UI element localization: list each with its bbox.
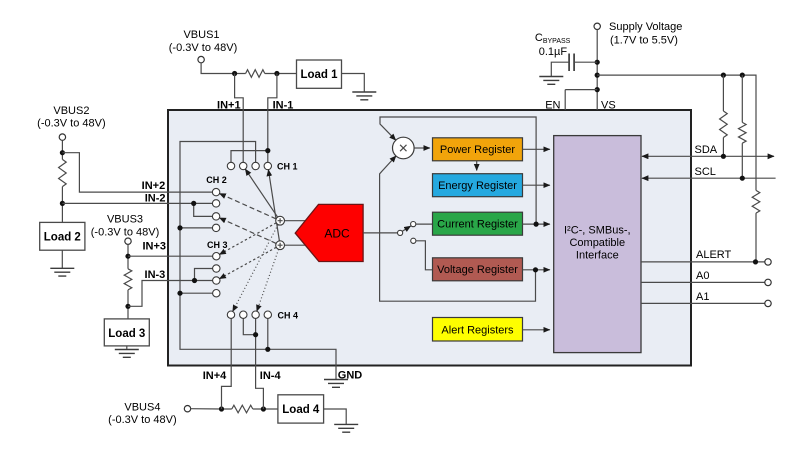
node CH1 contact 2 bbox=[240, 162, 247, 169]
junction pull-up R2 bbox=[740, 73, 745, 78]
junction IN-2 tap bbox=[60, 201, 65, 206]
junction CH3 link bbox=[192, 278, 197, 283]
svg-text:0.1µF: 0.1µF bbox=[539, 46, 568, 58]
svg-text:IN-2: IN-2 bbox=[145, 193, 166, 205]
svg-text:Compatible: Compatible bbox=[569, 237, 625, 249]
wire switch to Current Register bbox=[416, 223, 433, 225]
IC block body U1 bbox=[168, 110, 691, 366]
svg-text:A1: A1 bbox=[696, 291, 709, 303]
node CH3 contact 1 bbox=[213, 253, 220, 260]
wire A0 bbox=[641, 281, 765, 283]
Load 1 box bbox=[297, 60, 342, 88]
svg-text:VS: VS bbox=[601, 100, 616, 112]
junction IN+2 tap bbox=[60, 150, 65, 155]
svg-text:(1.7V to 5.5V): (1.7V to 5.5V) bbox=[610, 35, 678, 47]
resistor shunt RS1 bbox=[246, 70, 265, 78]
wire capacitor to ground bbox=[551, 62, 569, 76]
terminal VBUS2 bbox=[59, 134, 65, 140]
junction IN+4 tap bbox=[219, 406, 224, 411]
wire mux select CH3 positive (dotted) bbox=[220, 223, 277, 255]
wire A1 bbox=[641, 302, 765, 304]
Alert Registers bbox=[433, 318, 523, 342]
wire RS2 to Load 2 bbox=[61, 187, 63, 223]
svg-text:(-0.3V to 48V): (-0.3V to 48V) bbox=[169, 42, 237, 54]
wire Current Register to interface bbox=[523, 223, 550, 225]
Power Register bbox=[433, 138, 523, 161]
wire summing junction top to ADC bbox=[285, 220, 306, 222]
svg-text:VBUS3: VBUS3 bbox=[107, 214, 143, 226]
svg-text:VBUS2: VBUS2 bbox=[53, 105, 89, 117]
wire mux select CH4 positive (fine dotted) bbox=[233, 225, 278, 312]
node switch throw current bbox=[411, 222, 416, 227]
node CH4 contact 1 bbox=[227, 311, 234, 318]
wire Load 1 to ground bbox=[342, 74, 365, 93]
wire summing junction bottom to ADC bbox=[285, 244, 306, 246]
wire mux select CH2 negative (dashed) bbox=[220, 218, 277, 244]
wire internal bus to CH1 contact 3 bbox=[180, 142, 336, 380]
I2C SMBus interface block U3 bbox=[554, 136, 641, 353]
junction IN-4 tap bbox=[261, 406, 266, 411]
wire pin IN-1 bbox=[268, 74, 277, 163]
wire CH4 link contact 2 to IN-4 bbox=[243, 318, 255, 334]
node switch pole bbox=[398, 230, 403, 235]
ground Load 1 bbox=[352, 92, 376, 100]
ground CBYPASS bbox=[539, 77, 563, 85]
junction IN-3 tap bbox=[125, 304, 130, 309]
svg-text:GND: GND bbox=[338, 370, 363, 382]
resistor shunt RS2 bbox=[59, 159, 67, 186]
junction IN+1 tap bbox=[232, 71, 237, 76]
wire pin IN+4 bbox=[222, 318, 232, 409]
resistor shunt RS4 bbox=[232, 405, 253, 413]
junction EN tap bbox=[595, 87, 600, 92]
node CH2 contact 3 bbox=[212, 213, 219, 220]
Load 2 box bbox=[40, 222, 85, 250]
svg-text:VBUS1: VBUS1 bbox=[183, 29, 219, 41]
svg-text:Interface: Interface bbox=[576, 250, 619, 262]
node CH1 contact 1 bbox=[227, 162, 234, 169]
wire VBUS3 down bbox=[127, 244, 129, 268]
wire CH3 contact 4 to bus bbox=[180, 292, 213, 294]
terminal ALERT bbox=[765, 259, 771, 265]
wire mux select CH1 positive (solid) bbox=[245, 169, 277, 217]
junction SCL pull-up bbox=[740, 176, 745, 181]
node CH2 contact 1 bbox=[212, 188, 219, 195]
node CH1 contact 4 bbox=[264, 162, 271, 169]
wire shunt RS1 to Load 1 bbox=[265, 73, 297, 75]
wire mux select CH2 positive (dashed) bbox=[220, 194, 277, 219]
svg-text:CH 3: CH 3 bbox=[207, 240, 228, 250]
wire SDA bbox=[642, 155, 774, 157]
wire switch to Voltage Register bbox=[416, 241, 433, 270]
resistor pull-up R3 (ALERT) bbox=[752, 190, 760, 213]
svg-text:Voltage Register: Voltage Register bbox=[437, 264, 518, 276]
svg-text:Energy Register: Energy Register bbox=[438, 180, 517, 192]
wire pin IN+1 bbox=[235, 74, 244, 163]
Energy Register bbox=[433, 174, 523, 197]
Load 3 box bbox=[104, 319, 149, 346]
junction IN+3 tap bbox=[125, 254, 130, 259]
wire SCL bbox=[642, 177, 776, 179]
svg-text:Load 3: Load 3 bbox=[108, 328, 145, 340]
svg-text:VBUS4: VBUS4 bbox=[124, 402, 160, 414]
wire capacitor right plate bbox=[574, 61, 597, 63]
terminal VBUS1 bbox=[198, 56, 204, 62]
wire mux select CH4 negative (fine dotted) bbox=[257, 249, 279, 311]
ground Load 4 bbox=[334, 424, 358, 432]
junction current feedback bbox=[534, 222, 539, 227]
wire Alert Registers to interface bbox=[523, 329, 550, 331]
ground Load 3 bbox=[115, 350, 139, 358]
wire pin IN-3 bbox=[128, 281, 213, 307]
Voltage Register bbox=[433, 258, 523, 281]
wire Power Register to interface bbox=[523, 148, 550, 150]
wire supply rail bbox=[597, 75, 756, 190]
junction rail tap bbox=[595, 73, 600, 78]
svg-text:IN+2: IN+2 bbox=[142, 180, 166, 192]
wire VBUS1 to shunt R1 bbox=[201, 63, 246, 74]
node CH4 contact 4 bbox=[264, 311, 271, 318]
wire Load 4 to ground bbox=[324, 409, 347, 424]
svg-text:(-0.3V to 48V): (-0.3V to 48V) bbox=[37, 118, 105, 130]
node CH4 contact 2 bbox=[240, 311, 247, 318]
node CH1 contact 3 bbox=[252, 162, 259, 169]
svg-text:IN+3: IN+3 bbox=[142, 240, 166, 252]
wire Power Register to Energy Register bbox=[476, 161, 478, 171]
Load 4 box bbox=[278, 395, 324, 423]
junction pull-up R1 bbox=[721, 73, 726, 78]
node CH2 contact 2 bbox=[212, 200, 219, 207]
terminal supply voltage bbox=[594, 23, 600, 29]
svg-text:CH 4: CH 4 bbox=[278, 310, 299, 320]
wire pin IN+2 bbox=[62, 153, 212, 192]
svg-text:Power Register: Power Register bbox=[440, 144, 516, 156]
wire mux select CH3 negative (dotted) bbox=[220, 247, 277, 278]
junction cap tap bbox=[595, 60, 600, 65]
junction voltage loop bbox=[533, 267, 538, 272]
wire pin IN-4 bbox=[256, 318, 264, 409]
node CH3 contact 2 bbox=[213, 265, 220, 272]
node CH4 contact 3 bbox=[252, 311, 259, 318]
wire CH1 bus bbox=[231, 151, 268, 163]
wire EN pin bbox=[565, 90, 597, 110]
junction ALERT pull-up bbox=[753, 259, 758, 264]
svg-text:A0: A0 bbox=[696, 270, 709, 282]
node CH3 contact 3 bbox=[213, 277, 220, 284]
svg-text:IN-1: IN-1 bbox=[273, 99, 294, 111]
node switch throw voltage bbox=[411, 238, 416, 243]
terminal A0 bbox=[765, 279, 771, 285]
svg-text:IN+1: IN+1 bbox=[217, 99, 241, 111]
wire voltage loop to multiplier bbox=[380, 156, 536, 301]
junction SDA pull-up bbox=[721, 154, 726, 159]
junction CH3 bus bbox=[177, 291, 182, 296]
junction CH2 bus bbox=[177, 225, 182, 230]
junction IN-1 tap bbox=[274, 71, 279, 76]
wire RS4 to Load 4 bbox=[253, 408, 278, 410]
svg-text:Load 1: Load 1 bbox=[300, 69, 338, 81]
wire Load 3 to ground bbox=[126, 346, 128, 350]
op-amp ADC U2 bbox=[295, 204, 363, 261]
wire mux select CH1 negative (solid) bbox=[268, 170, 279, 241]
wire ALERT bbox=[641, 261, 765, 263]
node summing junction bottom bbox=[276, 241, 285, 250]
wire ADC output bbox=[363, 232, 397, 234]
resistor pull-up R2 (SCL) bbox=[741, 75, 743, 122]
wire VBUS4 to shunt RS4 bbox=[191, 408, 232, 410]
junction CH4 bus bbox=[265, 347, 270, 352]
svg-text:Alert Registers: Alert Registers bbox=[441, 324, 514, 336]
svg-text:SDA: SDA bbox=[695, 144, 718, 156]
svg-text:IN+4: IN+4 bbox=[203, 370, 227, 382]
junction CH2 link bbox=[191, 201, 196, 206]
svg-text:ALERT: ALERT bbox=[696, 249, 732, 261]
wire Energy Register to interface bbox=[523, 184, 550, 186]
svg-text:SCL: SCL bbox=[695, 166, 716, 178]
svg-text:I²C-, SMBus-,: I²C-, SMBus-, bbox=[564, 225, 631, 237]
svg-text:CH 2: CH 2 bbox=[206, 175, 227, 185]
wire RS3 to Load 3 bbox=[127, 290, 129, 319]
wire CH4 contact 4 to bus bbox=[267, 318, 269, 349]
svg-text:CH 1: CH 1 bbox=[277, 161, 298, 171]
terminal VBUS4 bbox=[184, 406, 190, 412]
junction CH4 link bbox=[253, 332, 258, 337]
resistor pull-up R1 (SDA) bbox=[722, 75, 724, 111]
wire CH3 link IN-3 to contact 2 bbox=[195, 269, 213, 281]
node CH2 contact 4 bbox=[212, 224, 219, 231]
svg-text:ADC: ADC bbox=[324, 226, 350, 240]
wire Load 2 to ground bbox=[61, 250, 63, 268]
junction CH1 bus to IN-1 bbox=[265, 148, 270, 153]
wire pin IN+3 bbox=[128, 255, 213, 257]
wire CH2 contact 4 to bus bbox=[180, 227, 212, 229]
node summing junction top bbox=[276, 216, 285, 225]
terminal A1 bbox=[765, 300, 771, 306]
node CH3 contact 4 bbox=[213, 290, 220, 297]
wire pin IN-2 bbox=[62, 202, 212, 204]
capacitor CBYPASS bbox=[569, 54, 574, 72]
resistor shunt RS3 bbox=[124, 269, 132, 290]
svg-text:(-0.3V to 48V): (-0.3V to 48V) bbox=[108, 414, 176, 426]
svg-text:IN-4: IN-4 bbox=[260, 370, 282, 382]
Current Register bbox=[433, 212, 523, 235]
svg-text:Load 2: Load 2 bbox=[44, 231, 81, 243]
ground GND pin bbox=[324, 380, 348, 388]
wire VBUS2 down bbox=[61, 140, 63, 159]
svg-text:Current Register: Current Register bbox=[437, 219, 518, 231]
ground Load 2 bbox=[50, 268, 74, 276]
svg-text:EN: EN bbox=[545, 100, 560, 112]
wire VS supply bbox=[596, 30, 598, 111]
terminal VBUS3 bbox=[125, 238, 131, 244]
svg-text:Supply Voltage: Supply Voltage bbox=[609, 21, 682, 33]
wire multiplier to Power Register bbox=[414, 147, 430, 149]
wire switch lever bbox=[402, 226, 410, 231]
op-amp multiplier X1 bbox=[393, 137, 415, 159]
wire Voltage Register to interface bbox=[523, 269, 550, 271]
wire current feedback to multiplier bbox=[380, 117, 536, 224]
wire CH2 link IN-2 to contact 3 bbox=[194, 203, 213, 216]
svg-text:(-0.3V to 48V): (-0.3V to 48V) bbox=[91, 227, 159, 239]
svg-text:Load 4: Load 4 bbox=[282, 404, 320, 416]
svg-text:IN-3: IN-3 bbox=[145, 269, 166, 281]
